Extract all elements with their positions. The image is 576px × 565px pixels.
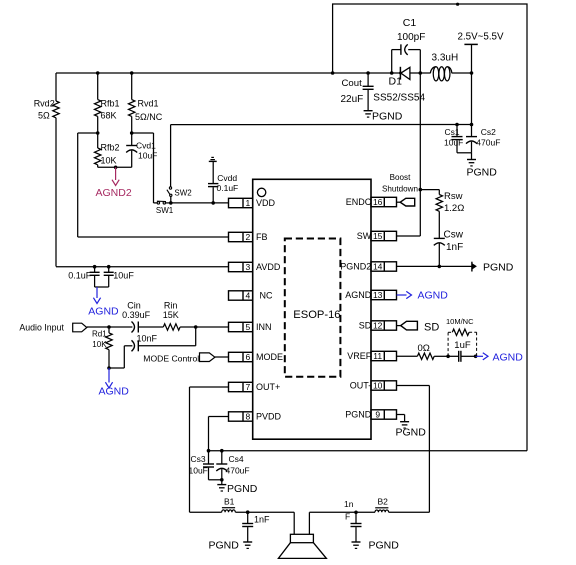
- svg-text:SW2: SW2: [174, 189, 192, 198]
- svg-text:PGND: PGND: [396, 427, 427, 439]
- svg-text:4: 4: [246, 291, 251, 301]
- svg-text:Rd1: Rd1: [92, 329, 107, 338]
- svg-text:10uF: 10uF: [138, 151, 157, 161]
- svg-text:ENDC: ENDC: [346, 197, 372, 207]
- svg-text:1.2Ω: 1.2Ω: [444, 203, 464, 214]
- svg-text:16: 16: [373, 197, 383, 207]
- svg-text:PGND: PGND: [209, 540, 240, 552]
- svg-text:0Ω: 0Ω: [418, 343, 430, 354]
- svg-text:13: 13: [373, 290, 383, 300]
- svg-text:2.5V~5.5V: 2.5V~5.5V: [458, 32, 504, 43]
- svg-text:1: 1: [246, 198, 251, 208]
- svg-text:3.3uH: 3.3uH: [432, 53, 459, 64]
- svg-text:SD: SD: [424, 322, 439, 334]
- svg-text:INN: INN: [256, 322, 272, 332]
- svg-text:Cs4: Cs4: [229, 454, 244, 464]
- svg-text:SW1: SW1: [156, 206, 174, 215]
- svg-text:OUT-: OUT-: [350, 381, 372, 391]
- svg-text:AVDD: AVDD: [256, 262, 281, 272]
- svg-text:12: 12: [373, 321, 383, 331]
- svg-text:AGND: AGND: [99, 386, 130, 398]
- svg-text:MODE Control: MODE Control: [143, 353, 199, 363]
- svg-text:PVDD: PVDD: [256, 412, 282, 422]
- svg-text:2: 2: [246, 232, 251, 242]
- svg-text:10nF: 10nF: [137, 333, 158, 343]
- svg-text:MODE: MODE: [256, 352, 283, 362]
- svg-text:9: 9: [375, 410, 380, 420]
- svg-text:AGND: AGND: [88, 306, 119, 318]
- svg-text:NC: NC: [260, 291, 273, 301]
- svg-text:0.39uF: 0.39uF: [122, 310, 151, 320]
- svg-text:VREF: VREF: [347, 351, 372, 361]
- svg-text:SW: SW: [357, 231, 372, 241]
- svg-text:VDD: VDD: [256, 198, 276, 208]
- svg-text:1n: 1n: [344, 499, 354, 509]
- svg-text:Rfb1: Rfb1: [101, 99, 120, 109]
- svg-text:AGND: AGND: [493, 351, 524, 363]
- svg-text:Cs3: Cs3: [191, 454, 206, 464]
- svg-text:8: 8: [246, 412, 251, 422]
- svg-text:11: 11: [373, 351, 382, 361]
- svg-text:10: 10: [373, 381, 383, 391]
- svg-text:10uF: 10uF: [444, 137, 463, 147]
- svg-text:0.1uF: 0.1uF: [68, 271, 92, 281]
- svg-text:Rvd1: Rvd1: [138, 99, 159, 109]
- svg-text:C1: C1: [403, 17, 417, 29]
- svg-text:SD: SD: [359, 321, 372, 331]
- svg-text:10M/NC: 10M/NC: [446, 317, 474, 326]
- svg-text:B1: B1: [224, 497, 235, 507]
- svg-text:Audio Input: Audio Input: [19, 322, 64, 332]
- svg-text:1nF: 1nF: [254, 514, 270, 524]
- svg-text:PGND: PGND: [369, 540, 400, 552]
- svg-text:68K: 68K: [101, 111, 117, 121]
- svg-text:PGND: PGND: [372, 111, 403, 123]
- svg-text:10uF: 10uF: [189, 466, 208, 476]
- svg-text:PGND: PGND: [467, 167, 498, 179]
- svg-text:10uF: 10uF: [113, 271, 134, 281]
- svg-text:6: 6: [246, 352, 251, 362]
- svg-text:F: F: [345, 512, 350, 522]
- svg-text:OUT+: OUT+: [256, 382, 280, 392]
- svg-text:Cin: Cin: [127, 300, 141, 310]
- svg-text:Rfb2: Rfb2: [101, 143, 120, 153]
- svg-text:ESOP-16: ESOP-16: [293, 309, 340, 321]
- svg-text:FB: FB: [256, 232, 268, 242]
- svg-text:15K: 15K: [163, 310, 179, 320]
- svg-text:10K: 10K: [92, 340, 107, 349]
- svg-text:Shutdown: Shutdown: [382, 185, 418, 194]
- svg-text:15: 15: [373, 231, 383, 241]
- svg-text:7: 7: [246, 382, 251, 392]
- svg-text:AGND: AGND: [418, 290, 449, 302]
- svg-text:AGND: AGND: [345, 290, 372, 300]
- svg-text:Cs1: Cs1: [445, 127, 460, 137]
- svg-text:100pF: 100pF: [397, 32, 425, 43]
- svg-text:Rvd2: Rvd2: [34, 99, 55, 109]
- svg-text:Boost: Boost: [390, 173, 411, 182]
- svg-text:5Ω/NC: 5Ω/NC: [135, 112, 163, 122]
- svg-text:PGND: PGND: [345, 410, 372, 420]
- svg-text:SS52/SS54: SS52/SS54: [373, 93, 425, 104]
- svg-text:Cvdd: Cvdd: [217, 173, 237, 183]
- svg-text:PGND: PGND: [227, 483, 258, 495]
- svg-text:Cout: Cout: [342, 78, 363, 89]
- svg-text:PGND: PGND: [483, 262, 514, 274]
- svg-text:5Ω: 5Ω: [38, 111, 50, 121]
- svg-text:470uF: 470uF: [226, 466, 250, 476]
- svg-text:10K: 10K: [101, 156, 117, 166]
- svg-text:PGND2: PGND2: [340, 262, 371, 272]
- svg-text:B2: B2: [378, 497, 389, 507]
- svg-text:3: 3: [246, 262, 251, 272]
- svg-text:470uF: 470uF: [476, 138, 500, 148]
- svg-text:22uF: 22uF: [341, 94, 364, 105]
- svg-text:Csw: Csw: [444, 230, 464, 241]
- svg-text:Rin: Rin: [164, 300, 178, 310]
- svg-text:0.1uF: 0.1uF: [217, 183, 239, 193]
- svg-text:1uF: 1uF: [454, 340, 471, 351]
- svg-text:5: 5: [246, 322, 251, 332]
- svg-text:1nF: 1nF: [446, 242, 463, 253]
- svg-text:AGND2: AGND2: [96, 187, 132, 199]
- svg-text:Rsw: Rsw: [444, 191, 463, 202]
- svg-text:Cs2: Cs2: [481, 127, 496, 137]
- svg-text:14: 14: [373, 262, 383, 272]
